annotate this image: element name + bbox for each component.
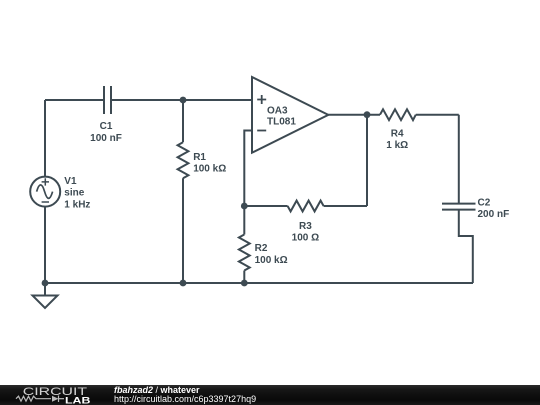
node A junction dot xyxy=(180,97,187,104)
wire op-amp output xyxy=(328,114,380,116)
svg-text:100 Ω: 100 Ω xyxy=(292,233,319,244)
wire V1 bottom lead xyxy=(44,206,46,283)
ground junction dot xyxy=(42,280,49,287)
label V1 value xyxy=(64,176,90,210)
label C1 value xyxy=(90,121,122,144)
wire feedback horizontal right of R3 xyxy=(324,205,367,207)
junction R2 bottom xyxy=(241,280,248,287)
label R1 value xyxy=(193,152,226,174)
bottom wire xyxy=(45,282,473,284)
svg-text:R3: R3 xyxy=(299,221,312,232)
footer text xyxy=(114,386,256,405)
svg-text:1 kΩ: 1 kΩ xyxy=(386,140,408,151)
resistor R4 xyxy=(380,109,416,120)
node output junction dot xyxy=(364,111,371,118)
wire left vertical V1 top lead xyxy=(44,100,46,177)
capacitor C2 xyxy=(442,204,476,210)
op-amp OA3 xyxy=(252,77,328,153)
wire right vertical to C2 xyxy=(458,115,460,204)
resistor R2 xyxy=(239,206,250,283)
svg-text:C1: C1 xyxy=(100,121,113,132)
svg-text:sine: sine xyxy=(64,188,84,199)
label R3 value xyxy=(292,221,319,243)
label R4 value xyxy=(386,129,408,152)
svg-text:R2: R2 xyxy=(255,243,268,254)
svg-text:C2: C2 xyxy=(478,198,491,209)
label R2 value xyxy=(255,243,288,266)
svg-text:R1: R1 xyxy=(193,152,206,163)
label OA3 TL081 xyxy=(267,106,296,128)
resistor R1 xyxy=(178,100,189,283)
svg-text:V1: V1 xyxy=(64,176,77,187)
voltage source V1 xyxy=(30,177,60,207)
capacitor C1 xyxy=(104,86,111,114)
svg-text:1 kHz: 1 kHz xyxy=(64,199,90,210)
wire top-left horizontal from V1 to C1 xyxy=(45,99,104,101)
wire C2 bottom jog xyxy=(459,210,473,283)
svg-text:LAB: LAB xyxy=(65,395,90,405)
junction R1 bottom xyxy=(180,280,187,287)
svg-text:100 kΩ: 100 kΩ xyxy=(255,255,288,266)
svg-text:TL081: TL081 xyxy=(267,117,296,128)
wire op-amp inverting input xyxy=(244,131,252,207)
label C2 value xyxy=(478,198,510,220)
wire node A to op-amp + input xyxy=(183,99,252,101)
wire R4 to right corner xyxy=(416,114,459,116)
resistor R3 xyxy=(244,201,323,212)
footer bar xyxy=(0,385,540,405)
logo CIRCUIT LAB xyxy=(0,385,110,405)
node feedback junction dot xyxy=(241,203,248,210)
wire C1 to node A xyxy=(111,99,183,101)
svg-text:R4: R4 xyxy=(391,129,404,140)
wire feedback vertical xyxy=(366,115,368,206)
svg-text:100 kΩ: 100 kΩ xyxy=(193,163,226,174)
svg-text:100 nF: 100 nF xyxy=(90,133,122,144)
ground xyxy=(33,283,58,308)
svg-text:OA3: OA3 xyxy=(267,106,288,117)
svg-text:200 nF: 200 nF xyxy=(478,209,510,220)
